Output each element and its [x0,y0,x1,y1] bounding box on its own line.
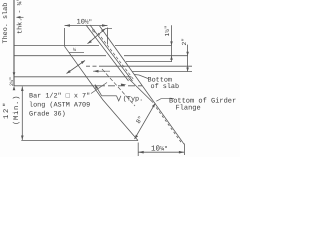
wire left small dim arrows [13,72,16,77]
wire bar label leader [91,83,107,94]
wire weld leader X1 [88,29,106,44]
wire line C [126,60,172,62]
svg-text:¼: ¼ [73,47,76,53]
wire hidden dashed line 1 [98,33,134,80]
wire right dim line V5 for 1.5in [171,25,173,62]
node bottom flange line [21,140,138,142]
wire bottom 10.25 dim extension right [183,144,185,156]
wire 8in dim line [135,103,156,139]
svg-text:(Min.): (Min.) [12,95,21,125]
wire right dim line V6 for 2in [187,45,189,72]
svg-text:¼: ¼ [92,29,95,35]
wire bottom 10.25 dim extension left [137,143,139,157]
svg-text:2": 2" [181,38,188,45]
svg-text:1½": 1½" [164,25,171,36]
wire bottom 10.25 dim arrowheads [138,151,144,154]
wire bottom of slab leader [135,75,149,79]
svg-text:2¼": 2¼" [9,77,15,86]
svg-text:of slab: of slab [151,83,180,91]
node girder web inside face W2 [65,46,139,140]
svg-text:Bar 1/2" □ x 7": Bar 1/2" □ x 7" [29,92,90,100]
svg-text:Flange: Flange [176,104,201,113]
wire slab thickness leader arrow [17,16,24,18]
node 12in min dimension line V2 [21,87,23,141]
node extension line left of 10.5 dim [64,28,66,46]
wire top dimension line 10.5 [65,25,108,27]
wire hidden dashed line 2 [102,69,135,106]
wire bottom 10.25 dim line [138,151,184,153]
wire hatch dashes along web lower leg [156,108,181,144]
wire line D [86,65,103,67]
wire typ weld ref line [102,95,117,97]
wire web middle segment [129,79,154,103]
node drip bar right edge [90,25,133,81]
wire line G [14,85,98,87]
node slab edge extension line V1 [13,0,15,86]
svg-text:thk. - ¾": thk. - ¾" [17,0,25,34]
svg-text:(Typ.: (Typ. [123,95,143,103]
wire line F [133,71,193,73]
wire bottom of girder flange leader [156,99,174,102]
wire line A top of haunch [14,44,99,46]
wire weld leader X2 [69,52,84,54]
svg-text:12": 12" [2,101,11,119]
svg-text:Theo. slab: Theo. slab [2,3,10,44]
wire line B [14,55,106,57]
svg-text:10¼": 10¼" [151,144,168,153]
svg-text:Grade 36): Grade 36) [29,110,66,118]
node drip bar left edge [86,25,129,81]
node extension line right of 10.5 dim [106,28,108,45]
svg-text:long (ASTM A709: long (ASTM A709 [29,101,90,109]
node girder web outside face W1 [100,26,185,144]
svg-text:10½": 10½" [77,18,93,26]
wire line E bottom of slab left [14,76,131,78]
